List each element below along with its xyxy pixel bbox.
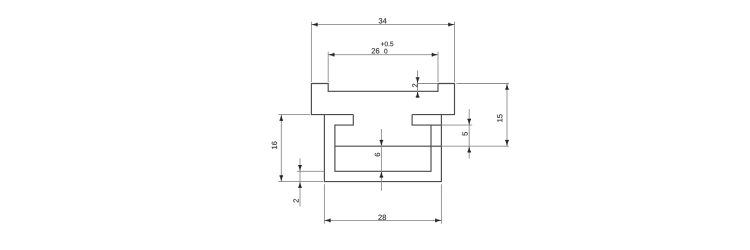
dim 26 text [372, 48, 380, 53]
dim 26 extension line left [327, 52, 329, 82]
dim 34 arrow left [311, 23, 317, 27]
dim 34 text [379, 18, 387, 23]
dim 16 arrow top [280, 115, 284, 121]
plate underside edge right [412, 114, 441, 116]
dim 2 top extension line [418, 83, 438, 85]
dim 15 extension line bottom [431, 145, 441, 147]
dim 5 arrow upper [467, 119, 471, 125]
dim 15 arrow bottom [505, 140, 509, 146]
plate underside edge left [324, 114, 353, 116]
dim 6 arrow upper [380, 140, 384, 146]
dim 16 text [272, 141, 277, 148]
dim 2 top arrow upper [416, 77, 420, 83]
dim 15 text [497, 114, 502, 121]
dim 16 extension line top [278, 114, 310, 116]
dim 26 arrow right [432, 53, 438, 57]
dim 6 arrow lower [380, 171, 384, 177]
dim 28 text [378, 215, 386, 220]
dim 34 extension line left [310, 22, 312, 82]
dim 26 extension line right [437, 52, 439, 82]
dim 34 dimension line [311, 24, 454, 26]
dim 15 dimension line [506, 84, 508, 147]
dim 28 arrow left [324, 219, 330, 223]
dim 28 dimension line [324, 219, 441, 221]
dim 5 text [462, 132, 467, 136]
internal edge line (groove shelf) [335, 145, 431, 147]
dim 26 tolerance lower 0 [384, 49, 387, 54]
dim 2 bottom-left dimension line [299, 158, 301, 206]
dim 16 extension line bottom [278, 181, 323, 183]
dim 2 bottom-left text [293, 199, 298, 202]
dim 26 dimension line [328, 54, 438, 56]
dim 15 arrow top [505, 84, 509, 90]
dim 5 extension line top [431, 124, 441, 126]
dim 5 dimension line [468, 109, 470, 158]
dim 5 arrow lower [467, 146, 471, 152]
profile inner cavity contour [335, 115, 431, 172]
dim 2 top text [412, 84, 417, 87]
dim 34 arrow right [448, 23, 454, 27]
profile outer contour [311, 84, 454, 182]
dim 16 dimension line [280, 115, 282, 182]
dim 28 extension line right [440, 184, 442, 223]
dim 28 arrow right [435, 219, 441, 223]
dim 2 top arrow lower [416, 91, 420, 97]
dim 2 top dimension line [417, 70, 419, 98]
dim 28 extension line left [323, 184, 325, 223]
dim 16 arrow bottom [280, 175, 284, 181]
dim 2 bottom-left extension line [297, 170, 324, 172]
dim 26 tolerance upper +0.5 [381, 42, 393, 47]
dim 15 extension line top [457, 83, 510, 85]
dim 6 text [375, 153, 380, 156]
dim 34 extension line right [454, 22, 456, 82]
dim 6 dimension line [380, 129, 382, 191]
dim 2 bottom-left arrow lower [298, 182, 302, 188]
dim 26 arrow left [328, 53, 334, 57]
dim 2 bottom-left arrow upper [298, 165, 302, 171]
